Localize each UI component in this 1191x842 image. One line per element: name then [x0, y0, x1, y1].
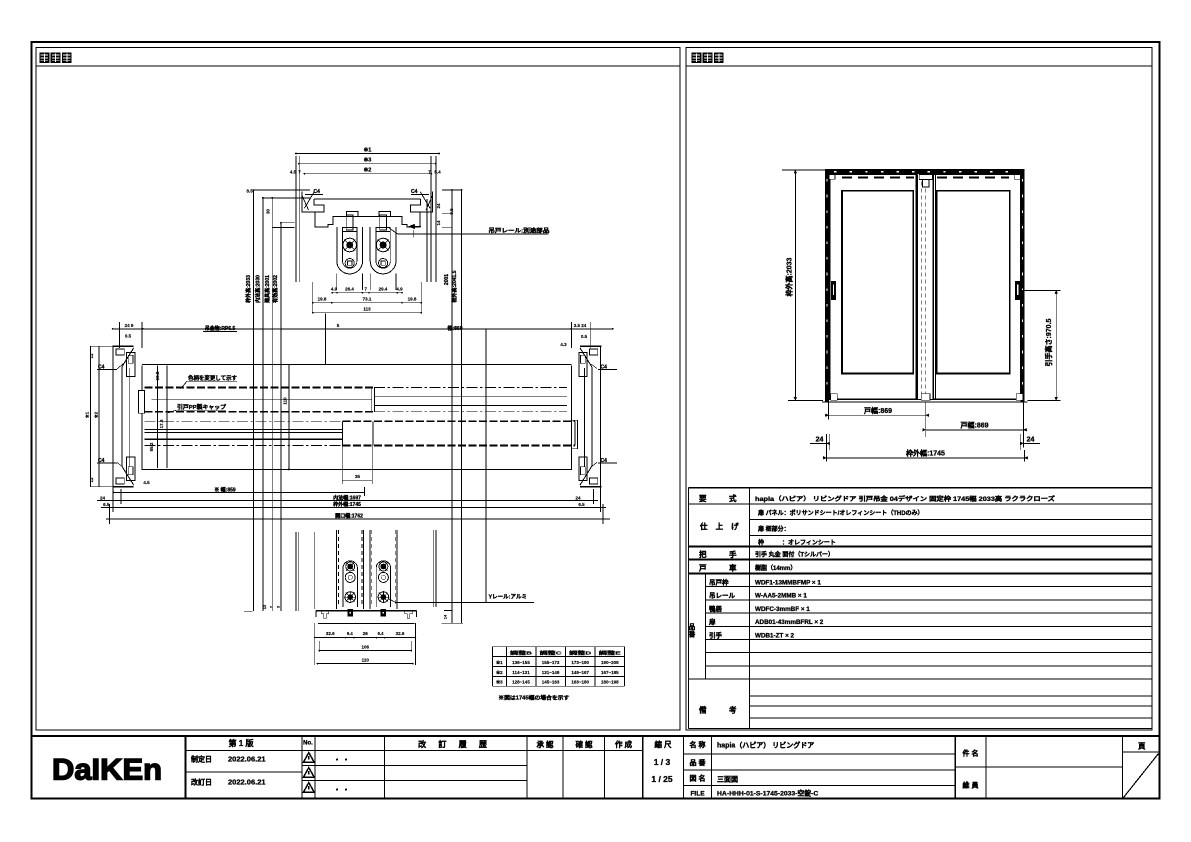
svg-text:0.5: 0.5: [125, 334, 132, 339]
ceiling line: [314, 198, 420, 200]
svg-text:24: 24: [1027, 437, 1035, 444]
svg-text:2022.06.21: 2022.06.21: [228, 778, 266, 787]
svg-text:55.2: 55.2: [149, 442, 154, 451]
svg-text:有効高:2002: 有効高:2002: [272, 275, 279, 303]
svg-text:HA-HHH-01-S-1745-2033-空錠-C: HA-HHH-01-S-1745-2033-空錠-C: [717, 789, 818, 798]
svg-text:制定日: 制定日: [191, 755, 212, 764]
svg-text:12: 12: [89, 353, 94, 359]
dimension frame width 1745: [826, 457, 1024, 459]
svg-text:FILE: FILE: [690, 791, 705, 798]
svg-text:※1: ※1: [364, 146, 372, 154]
bottom dim chains: [315, 637, 416, 639]
specification table grid: [688, 488, 690, 729]
svg-text:17.8: 17.8: [159, 419, 164, 428]
svg-text:※ 幅:859: ※ 幅:859: [214, 486, 236, 493]
head jamb left bracket: [302, 191, 324, 212]
svg-text:考: 考: [729, 705, 737, 715]
svg-text:※1: ※1: [496, 659, 503, 666]
svg-text:29.4: 29.4: [379, 287, 388, 292]
plan top dim chain: [113, 328, 613, 330]
svg-text:内法幅:1697: 内法幅:1697: [333, 494, 361, 501]
title block grid: [32, 735, 1160, 737]
svg-text:35: 35: [355, 474, 361, 479]
35 dim at stile: [341, 446, 343, 485]
svg-text:枠外高:2033: 枠外高:2033: [785, 257, 794, 296]
svg-text:扉 パネル：ポリサンドシート/オレフィンシート（THDのみ）: 扉 パネル：ポリサンドシート/オレフィンシート（THDのみ）: [757, 509, 924, 517]
svg-text:式: 式: [729, 493, 737, 503]
left door handle: [831, 281, 836, 300]
top hanger dashed lines: [842, 177, 914, 179]
svg-text:136~155: 136~155: [512, 660, 530, 665]
svg-text:図 名: 図 名: [690, 774, 706, 783]
svg-text:車: 車: [729, 563, 737, 573]
svg-text:幅:869: 幅:869: [447, 325, 462, 332]
svg-text:2001: 2001: [444, 274, 450, 285]
svg-text:5.4: 5.4: [434, 170, 441, 175]
top assembly wall lines: [295, 156, 297, 282]
svg-text:167~185: 167~185: [601, 670, 619, 675]
svg-text:19.8: 19.8: [155, 371, 160, 380]
svg-text:163~180: 163~180: [571, 680, 589, 685]
svg-text:113: 113: [363, 307, 371, 312]
svg-text:調整C: 調整C: [540, 649, 563, 656]
rail leader note: [397, 233, 548, 235]
bottom corner blocks: [831, 394, 838, 401]
svg-text:0.5: 0.5: [581, 334, 588, 339]
svg-text:12: 12: [262, 604, 267, 609]
svg-text:作 成: 作 成: [615, 739, 633, 749]
svg-text:6.5: 6.5: [578, 502, 585, 507]
svg-text:9.4: 9.4: [378, 631, 384, 636]
svg-text:手: 手: [729, 549, 737, 559]
top corner blocks: [829, 175, 835, 180]
svg-text:※1: ※1: [84, 411, 90, 418]
svg-text:引手: 引手: [709, 631, 723, 640]
svg-text:hapia（ハピア） リビングドア 引戸吊金 04デザイン: hapia（ハピア） リビングドア 引戸吊金 04デザイン 固定枠 1745幅 …: [755, 495, 1055, 503]
bottom right dim lines: [433, 530, 435, 607]
svg-text:24: 24: [575, 495, 581, 500]
svg-text:改訂日: 改訂日: [191, 778, 212, 787]
svg-text:調整D: 調整D: [569, 649, 592, 656]
svg-text:※2: ※2: [496, 669, 503, 676]
svg-text:24: 24: [436, 203, 441, 209]
svg-text:頁: 頁: [1138, 742, 1146, 751]
svg-text:※図は1745幅の場合を示す: ※図は1745幅の場合を示す: [498, 694, 569, 702]
svg-text:品 番: 品 番: [690, 758, 707, 767]
svg-text:14: 14: [443, 614, 448, 619]
svg-text:把: 把: [699, 549, 707, 559]
svg-text:4.9: 4.9: [331, 287, 338, 292]
svg-text:149~167: 149~167: [571, 670, 589, 675]
door leaf 1 plan (upper bar): [142, 363, 572, 365]
svg-text:件 名: 件 名: [963, 749, 979, 758]
svg-text:調整E: 調整E: [599, 649, 622, 656]
bottom left extension lines: [295, 532, 297, 611]
svg-text:名 称: 名 称: [690, 740, 706, 749]
svg-text:扉 框部分：: 扉 框部分：: [757, 525, 790, 533]
svg-text:ADB01-43mmBFRL × 2: ADB01-43mmBFRL × 2: [755, 619, 824, 626]
svg-text:114~131: 114~131: [512, 670, 530, 675]
svg-text:2022.06.21: 2022.06.21: [228, 755, 266, 764]
svg-text:番: 番: [688, 630, 696, 639]
right panel frame (front view): [686, 48, 1152, 731]
svg-text:框外高:2041.5: 框外高:2041.5: [451, 270, 458, 302]
svg-text:枠外幅:1745: 枠外幅:1745: [333, 501, 361, 508]
svg-text:145~163: 145~163: [542, 680, 560, 685]
svg-text:吊金物:RP6.5: 吊金物:RP6.5: [205, 325, 236, 332]
left jamb profile: [112, 346, 114, 487]
svg-text:縮 尺: 縮 尺: [654, 739, 672, 749]
svg-text:調整B: 調整B: [510, 649, 533, 656]
svg-text:106: 106: [361, 645, 369, 650]
svg-text:19.8: 19.8: [408, 297, 417, 302]
svg-text:WDFC-3mmBF × 1: WDFC-3mmBF × 1: [755, 606, 810, 613]
left panel frame (section view): [36, 48, 680, 731]
svg-text:6.5: 6.5: [103, 502, 110, 507]
left jamb small dims: [157, 366, 159, 468]
svg-text:W-AA5-2MMB × 1: W-AA5-2MMB × 1: [755, 593, 807, 600]
svg-text:9.4: 9.4: [347, 631, 353, 636]
svg-text:DaIKEn: DaIKEn: [52, 754, 162, 787]
svg-text:色柄を変更して示す: 色柄を変更して示す: [188, 374, 237, 382]
svg-text:110: 110: [362, 658, 370, 663]
svg-text:備: 備: [699, 705, 707, 715]
svg-text:26.4: 26.4: [345, 287, 354, 292]
svg-text:建具高:2001: 建具高:2001: [264, 275, 271, 304]
adjustment range table: [491, 647, 493, 687]
svg-text:128~145: 128~145: [512, 680, 530, 685]
svg-text:戸幅:869: 戸幅:869: [960, 421, 988, 430]
hanger rail housing: [315, 212, 347, 227]
svg-text:No.: No.: [303, 741, 313, 747]
svg-text:確 認: 確 認: [574, 739, 593, 749]
svg-text:1 / 25: 1 / 25: [651, 774, 673, 784]
svg-text:※3: ※3: [496, 679, 503, 686]
svg-text:WDF1-13MMBFMP × 1: WDF1-13MMBFMP × 1: [755, 580, 821, 587]
svg-text:樹脂（14mm）: 樹脂（14mm）: [755, 564, 796, 572]
right jamb profile: [600, 346, 602, 487]
section arrow mark: [409, 224, 415, 229]
svg-text:110: 110: [283, 397, 288, 405]
svg-text:※2: ※2: [93, 411, 99, 418]
svg-text:内法高:2030: 内法高:2030: [255, 275, 262, 303]
svg-text:枠 ：オレフィンシート: 枠 ：オレフィンシート: [758, 539, 836, 547]
svg-text:第 1 版: 第 1 版: [229, 738, 254, 748]
svg-text:扉: 扉: [709, 617, 716, 626]
door leaf 2 plan (lower bar): [342, 420, 575, 422]
svg-text:4.5: 4.5: [143, 480, 150, 485]
svg-text:吊レール: 吊レール: [709, 591, 736, 600]
svg-text:改 訂 履 歴: 改 訂 履 歴: [418, 739, 492, 749]
svg-text:開口幅:1762: 開口幅:1762: [335, 513, 363, 520]
svg-text:鴨居: 鴨居: [709, 604, 723, 613]
svg-text:32.6: 32.6: [326, 631, 335, 636]
svg-text:24: 24: [100, 495, 106, 500]
right door leaf: [933, 175, 1020, 400]
svg-text:引戸PP製キャップ: 引戸PP製キャップ: [177, 403, 227, 411]
dimension handle height 970.5: [1055, 290, 1057, 400]
svg-text:131~149: 131~149: [542, 670, 560, 675]
revision dots: [336, 759, 338, 761]
svg-text:4.3: 4.3: [560, 342, 567, 347]
svg-text:引手 丸金 面付（Tシルバー）: 引手 丸金 面付（Tシルバー）: [755, 551, 834, 559]
right door handle: [1015, 281, 1020, 300]
svg-text:0.5: 0.5: [449, 208, 454, 215]
svg-text:三面図: 三面図: [717, 775, 738, 784]
svg-text:26: 26: [363, 631, 369, 636]
height dimension lines cluster: [253, 190, 255, 611]
svg-text:要: 要: [699, 494, 707, 503]
svg-text:32.6: 32.6: [396, 631, 405, 636]
svg-text:戸: 戸: [699, 564, 707, 573]
elevation frame dark bands: [825, 169, 1024, 174]
svg-text:30: 30: [265, 209, 270, 215]
svg-text:※3: ※3: [364, 156, 372, 164]
svg-text:戸幅:869: 戸幅:869: [864, 406, 892, 415]
dimension door width 869 right: [926, 429, 1024, 431]
svg-text:hapia（ハピア） リビングドア: hapia（ハピア） リビングドア: [717, 741, 814, 750]
long vertical at 486: [485, 329, 487, 603]
svg-text:品: 品: [689, 622, 696, 631]
svg-text:仕 上 げ: 仕 上 げ: [699, 521, 742, 531]
svg-text:枠外幅:1745: 枠外幅:1745: [906, 449, 945, 458]
hanger roller units: [336, 227, 338, 261]
svg-text:承 認: 承 認: [536, 739, 554, 749]
page cell diagonal: [1124, 754, 1159, 798]
svg-text:8.5: 8.5: [246, 189, 253, 194]
svg-text:維 員: 維 員: [963, 781, 980, 790]
dimension frame height 2033: [794, 170, 796, 400]
svg-text:4.9: 4.9: [396, 287, 403, 292]
svg-text:190~208: 190~208: [601, 660, 619, 665]
svg-text:1 / 3: 1 / 3: [654, 757, 671, 767]
svg-text:180~198: 180~198: [601, 680, 619, 685]
svg-text:引手高さ:970.5: 引手高さ:970.5: [1044, 318, 1053, 366]
svg-text:24: 24: [816, 437, 824, 444]
svg-text:3.5 24: 3.5 24: [574, 323, 587, 328]
bottom guide units: [336, 530, 338, 609]
left door leaf: [830, 175, 917, 400]
left door recessed panel: [842, 191, 913, 374]
svg-text:枠外高:2033: 枠外高:2033: [245, 275, 252, 303]
svg-text:※2: ※2: [364, 166, 372, 174]
svg-text:14: 14: [436, 220, 441, 226]
svg-text:19.8: 19.8: [318, 297, 327, 302]
svg-text:吊戸レール:別途部品: 吊戸レール:別途部品: [488, 226, 550, 234]
svg-text:12: 12: [89, 477, 94, 483]
head jamb right bracket: [411, 191, 433, 212]
revision warning triangles: [303, 753, 314, 763]
svg-text:155~173: 155~173: [542, 660, 560, 665]
svg-text:Yレール:アルミ: Yレール:アルミ: [489, 594, 527, 601]
left edge height dims: [89, 346, 91, 487]
svg-text:24 9: 24 9: [125, 323, 134, 328]
top assembly lower dim chains: [332, 292, 402, 294]
meeting stile lines: [914, 175, 916, 400]
plan bottom dim stack: [114, 492, 365, 494]
elevation sill lines: [829, 398, 1021, 400]
right door recessed panel: [937, 191, 1010, 374]
dimension door width 869 left: [829, 414, 926, 416]
floor rail leader note: [396, 602, 534, 604]
svg-text:73.1: 73.1: [363, 297, 372, 302]
svg-text:吊戸枠: 吊戸枠: [709, 578, 729, 587]
svg-text:173~190: 173~190: [571, 660, 589, 665]
floor rail: [316, 610, 417, 612]
top assembly width dim lines: [296, 153, 439, 155]
svg-text:WDB1-ZT × 2: WDB1-ZT × 2: [755, 633, 795, 640]
top assembly right dim lines: [451, 190, 453, 623]
